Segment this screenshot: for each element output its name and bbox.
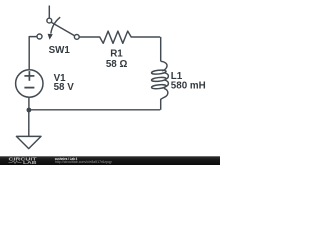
svg-text:58 V: 58 V xyxy=(54,82,75,93)
svg-text:580 mH: 580 mH xyxy=(171,81,206,92)
svg-text:SW1: SW1 xyxy=(49,45,71,56)
svg-text:58 Ω: 58 Ω xyxy=(106,59,128,70)
svg-text:LAB: LAB xyxy=(23,160,37,165)
svg-text:http://circuitlab.com/c/e8a517: http://circuitlab.com/c/e8a517r6zpqy xyxy=(55,160,112,164)
